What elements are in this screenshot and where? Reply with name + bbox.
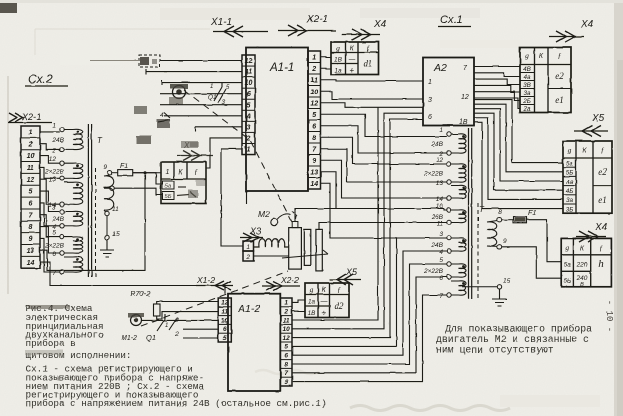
svg-text:6: 6	[223, 326, 227, 333]
connector label X5 right	[574, 113, 608, 137]
svg-text:2: 2	[283, 309, 288, 316]
connector X2-1 pin strip pins 1..14	[21, 126, 40, 268]
svg-text:g: g	[336, 44, 340, 53]
wire A1-1 left pin11	[146, 71, 242, 73]
wire A2 to X5 table row 3	[474, 109, 563, 181]
svg-text:X2-2: X2-2	[280, 275, 299, 285]
svg-text:10: 10	[245, 80, 253, 87]
svg-text:X1-1: X1-1	[210, 17, 232, 28]
transformer Cx.2 primary winding pins 9,10,11	[103, 164, 119, 216]
wire A2 to X5 table row 4	[474, 113, 563, 190]
wire A2 to X4 table row 5	[474, 92, 520, 101]
svg-text:5: 5	[312, 112, 316, 119]
connector label X1-1	[210, 17, 268, 37]
svg-text:А1-1: А1-1	[269, 62, 294, 74]
connector label X6 middle smudged	[177, 141, 213, 161]
svg-text:1: 1	[210, 84, 213, 90]
svg-text:6: 6	[428, 114, 432, 121]
svg-text:24В: 24В	[51, 137, 64, 144]
svg-text:8: 8	[29, 224, 33, 231]
wire A2 to X4 table row 4	[474, 85, 520, 92]
svg-text:X2-1: X2-1	[21, 112, 41, 122]
svg-text:2×22В: 2×22В	[44, 242, 65, 249]
connector label X1-2	[196, 275, 233, 290]
wire motor M2 to Cx.1 winding pin10	[295, 209, 447, 222]
figure caption text block	[25, 303, 327, 409]
mechanical link M1-1 to M2 dashed	[184, 90, 293, 224]
motor M2 phase bar 1	[304, 229, 311, 265]
svg-text:12: 12	[461, 94, 469, 101]
wire A1-1 left pin1 down to X3 pin1	[221, 149, 243, 246]
wire A1-1 pin2 to d1 terminal 1а	[321, 67, 332, 70]
connector table X4 bottom voltage selector 220/240 with winding h	[561, 238, 611, 288]
svg-text:двигатель М2 и связанные с: двигатель М2 и связанные с	[436, 334, 589, 345]
wire X2-1 pin 1 to Cx.2 winding	[40, 131, 60, 133]
svg-text:X4: X4	[373, 19, 387, 30]
svg-text:12: 12	[49, 156, 57, 163]
svg-text:13: 13	[49, 176, 57, 183]
transformer Cx.2 winding 14	[49, 182, 83, 209]
wire A1-2 pin9 riser to Cx.1 winding pin7	[292, 295, 447, 382]
svg-text:5: 5	[29, 189, 33, 196]
svg-text:d1: d1	[364, 59, 373, 69]
svg-text:1: 1	[312, 54, 316, 61]
svg-text:3В: 3В	[523, 82, 531, 89]
svg-text:9: 9	[503, 238, 507, 245]
svg-text:3а: 3а	[566, 197, 574, 204]
wire A1-2 pin12 riser to A2 pin6	[292, 119, 423, 338]
transformer Cx.1 winding 12-13 2×22В	[423, 157, 466, 187]
svg-text:прибора с напряжением питания: прибора с напряжением питания 24В (остал…	[26, 398, 327, 409]
wire A1-1 pin12 to A2 unlabeled pin	[321, 103, 424, 108]
svg-text:1В: 1В	[334, 57, 343, 64]
svg-text:3а: 3а	[523, 90, 531, 97]
wire A2 to X5 table row 1	[474, 100, 563, 163]
smudge component left	[134, 106, 151, 144]
wire X2-1 pin14 bus to A1-2	[40, 262, 225, 294]
svg-text:2: 2	[311, 66, 316, 73]
svg-text:4а: 4а	[566, 179, 574, 186]
wire A1-1 left pin10	[162, 82, 242, 84]
connector label X5 middle	[330, 267, 361, 285]
svg-text:5Б: 5Б	[165, 194, 172, 200]
motor M2 phase bar 2	[316, 229, 322, 271]
transformer T (Cx.1) core	[469, 128, 472, 299]
svg-text:7: 7	[284, 370, 288, 377]
wire A2 to X4 table row 3	[474, 79, 520, 84]
svg-text:1: 1	[439, 127, 443, 134]
svg-text:4: 4	[246, 113, 251, 120]
svg-text:10: 10	[27, 153, 35, 160]
svg-text:2: 2	[51, 147, 56, 154]
svg-text:2: 2	[28, 141, 33, 148]
svg-text:Для показывающего прибора: Для показывающего прибора	[445, 324, 592, 335]
svg-text:9: 9	[284, 379, 288, 386]
wire X2-1 pin 6 to Cx.2 winding	[40, 203, 60, 226]
svg-text:6: 6	[52, 251, 56, 258]
svg-text:X1-2: X1-2	[196, 275, 215, 285]
svg-text:g: g	[525, 51, 529, 60]
wire X2-1 pin13 bus to F1 junction loop	[40, 175, 145, 271]
svg-text:7: 7	[439, 293, 443, 300]
wire A1-2 pin5 riser to winding pin3 line	[292, 238, 397, 346]
wire A1-2 pin6 riser to Cx.1 winding pin4	[292, 251, 447, 355]
svg-text:Q1: Q1	[146, 333, 156, 342]
transformer Cx.2 winding 5-6 2×22В	[44, 230, 83, 258]
motor M2 wiper line	[282, 250, 328, 258]
svg-text:d2: d2	[335, 301, 345, 311]
svg-text:5а: 5а	[165, 184, 172, 190]
svg-text:5: 5	[439, 257, 443, 264]
svg-text:12: 12	[283, 335, 291, 342]
svg-text:2: 2	[245, 254, 250, 261]
connector label X2-1 top	[278, 14, 336, 36]
svg-text:R70-2: R70-2	[130, 289, 151, 298]
svg-text:15: 15	[503, 278, 511, 285]
wire A1-1 pin10 to A2 pin3	[321, 91, 424, 99]
svg-text:6: 6	[247, 91, 251, 98]
svg-text:4Б: 4Б	[566, 188, 574, 195]
svg-text:5Б: 5Б	[563, 278, 571, 285]
svg-text:14: 14	[27, 260, 35, 267]
wire A2 to X5 table row 2	[474, 104, 563, 172]
svg-text:26В: 26В	[430, 214, 443, 221]
svg-text:14: 14	[436, 196, 444, 203]
transformer Cx.2 winding 7	[52, 257, 82, 277]
svg-text:24В: 24В	[430, 242, 443, 249]
svg-text:ƒ: ƒ	[366, 44, 370, 53]
svg-text:А1-2: А1-2	[237, 303, 260, 315]
switch Q1 (channel 2)	[146, 314, 179, 342]
svg-text:12: 12	[310, 100, 318, 107]
svg-text:e1: e1	[555, 95, 564, 105]
motor M1-2	[121, 313, 144, 342]
transformer T (Cx.2) core	[88, 124, 103, 277]
svg-text:6: 6	[312, 123, 316, 130]
wire A2 to X4 table row 2	[474, 73, 520, 77]
svg-text:8: 8	[284, 361, 288, 368]
svg-text:4: 4	[439, 249, 443, 256]
svg-text:F1: F1	[528, 210, 536, 217]
svg-text:ƒ: ƒ	[558, 51, 562, 60]
wire A1-1 pin11 to A2 pin1	[321, 80, 424, 81]
svg-text:24В: 24В	[430, 141, 443, 148]
svg-text:6: 6	[284, 353, 288, 360]
svg-text:2: 2	[246, 135, 251, 142]
svg-text:прибора в: прибора в	[26, 338, 76, 349]
svg-text:4: 4	[160, 112, 164, 119]
svg-text:9: 9	[29, 236, 33, 243]
svg-text:3: 3	[247, 124, 251, 131]
A1-2 left pin column pins 12,11,10,6,5	[218, 298, 231, 342]
svg-text:1: 1	[428, 79, 432, 86]
connector table X4 top with contacts 4В,4а,3В,3а,2Б,2а and windings e2,e1	[520, 48, 571, 114]
wire A2 to X4 table row 1	[474, 66, 520, 68]
mechanical link M1-2 to M2 dashed	[141, 271, 288, 326]
svg-text:9: 9	[103, 164, 107, 171]
svg-text:В: В	[580, 282, 584, 288]
svg-text:X2-1: X2-1	[306, 14, 328, 25]
op-amp unit A1-1 main box	[246, 48, 308, 192]
svg-text:1: 1	[165, 323, 168, 329]
svg-text:1: 1	[52, 123, 56, 130]
svg-text:Q1: Q1	[208, 94, 217, 101]
connector label X4 top right	[549, 19, 594, 42]
svg-text:2Б: 2Б	[522, 98, 531, 105]
svg-text:+: +	[349, 66, 354, 75]
svg-text:4а: 4а	[523, 74, 531, 81]
svg-text:6: 6	[29, 201, 33, 208]
transformer Cx.1 primary winding pins 8,9	[487, 209, 507, 249]
connector X3 pin boxes 1,2	[243, 241, 254, 261]
svg-text:2×22В: 2×22В	[44, 168, 65, 175]
connector label X4 bottom right	[576, 222, 608, 242]
svg-text:3: 3	[439, 231, 443, 238]
wire Q1 contact to A1-2 pin5	[183, 337, 218, 339]
svg-text:2: 2	[174, 318, 179, 324]
wire A1-1 left pin5	[160, 104, 242, 106]
wire A1-1 pin13 junction to M2 supply line	[321, 172, 337, 209]
wire X2-1 pin 11 to Cx.2 winding	[40, 167, 60, 178]
wire M1-2 to A1-2 pin10	[142, 319, 218, 321]
connector label X2-1 left	[8, 112, 52, 123]
svg-text:1В: 1В	[308, 310, 316, 317]
svg-text:1: 1	[247, 147, 251, 154]
wire motor M2 phase bar to Cx.1 winding pin11	[319, 223, 447, 230]
svg-text:3Б: 3Б	[566, 206, 574, 213]
svg-text:11: 11	[221, 309, 228, 316]
svg-text:11: 11	[245, 69, 252, 76]
schematic label Cx.2	[25, 72, 68, 86]
svg-text:М1-2: М1-2	[121, 335, 137, 342]
wire A1-1 left pin12 to input component	[160, 60, 242, 62]
wire A1-1 left pin6	[160, 93, 242, 95]
wire X3 pin2 to motor	[254, 255, 289, 257]
transformer Cx.1 winding 5-6 2×22В	[423, 257, 466, 282]
svg-text:Сх.2: Сх.2	[28, 72, 53, 86]
svg-text:3: 3	[52, 205, 56, 212]
transformer T (Cx.2) screen dashed	[95, 168, 97, 277]
svg-text:5: 5	[52, 230, 56, 237]
svg-text:11: 11	[436, 221, 443, 228]
transformer T (Cx.1) screen dashed and label T	[478, 203, 485, 299]
junction node on F1 wire	[144, 171, 147, 174]
svg-text:—: —	[319, 297, 328, 306]
relay/meter table d2 with terminals 1а,1В	[305, 283, 349, 318]
wire A1-1 pin8 to Cx.1 winding pin12	[321, 137, 447, 164]
wire Cx.1 pin9 to X4 bottom row 5Б	[502, 247, 562, 278]
svg-text:2×22В: 2×22В	[423, 171, 444, 178]
svg-text:ƒ: ƒ	[337, 285, 341, 294]
svg-text:X4: X4	[594, 222, 608, 233]
wire X2-1 pin 2 to Cx.2 winding	[40, 144, 60, 150]
svg-text:А2: А2	[433, 62, 447, 74]
svg-text:12: 12	[221, 300, 229, 307]
transformer Cx.1 winding 3-4 24В	[430, 231, 466, 256]
wire A2 to X5 table row 5	[474, 118, 563, 200]
wire X2-1 pin 8 to Cx.2 winding	[40, 227, 60, 253]
wire A1-2 pin2 to d2 terminal 1В	[292, 310, 305, 312]
svg-text:g: g	[568, 146, 572, 155]
wire stub below A1-1	[246, 191, 248, 204]
svg-text:11: 11	[112, 206, 119, 213]
connector label X4 top middle	[342, 19, 387, 40]
svg-text:g: g	[310, 285, 314, 294]
wire A1-1 pin7 to Cx.1 winding pin13	[321, 149, 447, 182]
svg-text:ƒ: ƒ	[599, 244, 603, 253]
svg-text:2а: 2а	[522, 106, 531, 113]
svg-text:1В: 1В	[459, 119, 468, 126]
connector label X3	[240, 226, 263, 242]
wire A1-1 pin14 to Cx.1 winding pin3	[321, 183, 447, 238]
wire A1-1 left pin2 down to middle table	[206, 138, 242, 168]
svg-text:5а: 5а	[566, 160, 574, 167]
svg-text:220: 220	[576, 262, 588, 269]
svg-text:g: g	[565, 244, 569, 253]
svg-text:12: 12	[27, 177, 35, 184]
svg-text:24В: 24В	[51, 216, 64, 223]
svg-text:5: 5	[247, 102, 251, 109]
wire A1-2 pin7 riser to Cx.1 winding pin6	[292, 277, 447, 373]
dashed component box (channel 1 input)	[139, 55, 160, 67]
svg-text:12: 12	[245, 58, 253, 65]
switch Q1 (channel 1)	[208, 82, 230, 106]
svg-text:11: 11	[27, 165, 34, 172]
svg-text:e2: e2	[555, 71, 564, 81]
motor M2 winding block	[289, 222, 302, 270]
terminal 15 and ground (Cx.1)	[462, 278, 511, 306]
transformer Cx.1 winding 14	[436, 185, 466, 203]
A1-1 left pin column pins 12,11,10,6,5,4,3,2,1	[242, 55, 255, 155]
transformer Cx.2 winding 3-4 24В	[51, 205, 82, 231]
relay/meter table d1 with terminals 1В,1а	[331, 42, 379, 75]
svg-text:2: 2	[174, 332, 179, 338]
wire A2 to X4 table row 6	[474, 98, 520, 109]
wire A1-2 pin10 riser to A2 unlabeled pin	[292, 113, 423, 329]
svg-text:8: 8	[498, 209, 502, 216]
wire Q1 contact to A1-2 pin6	[183, 328, 218, 330]
transformer Cx.2 winding 1-2 24В	[51, 123, 82, 155]
svg-text:—: —	[347, 57, 356, 64]
fuse F1 (Cx.1)	[502, 210, 537, 223]
wire X2-1 pin 5 to Cx.2 winding	[40, 191, 60, 211]
motor M1-1	[169, 84, 188, 105]
transformer Cx.2 winding 12-13 2×22В	[44, 156, 83, 183]
schematic label Cx.1	[438, 14, 471, 27]
wire fuse F1 Cx.2 output to middle table	[133, 173, 163, 184]
svg-text:e2: e2	[598, 167, 607, 177]
wire R70-2 to A1-2 pin12	[157, 302, 219, 320]
svg-text:12: 12	[436, 157, 444, 164]
svg-text:10: 10	[283, 326, 291, 333]
svg-text:М2: М2	[258, 209, 270, 219]
svg-text:5: 5	[223, 335, 227, 342]
svg-text:e1: e1	[598, 195, 607, 205]
amplifier unit A2	[423, 58, 474, 127]
middle connector table (smudged) with pins 5а,5Б	[161, 162, 206, 204]
A1-1 right pin column pins 1,2,11,10,12,5,6,8,7,9,13,14	[308, 51, 321, 189]
wire A1-2 pin11 riser to A2 line	[292, 107, 378, 320]
register unit A1-2 main box	[228, 294, 280, 391]
wire A1-1 left pin3	[195, 126, 242, 128]
svg-text:11: 11	[283, 317, 290, 324]
svg-text:13: 13	[27, 248, 35, 255]
motor M2 circle and label	[258, 209, 297, 226]
wire Cx.2 pin10 to middle table	[114, 188, 162, 195]
transformer Cx.1 winding 1-2 24В	[430, 127, 466, 158]
svg-text:h: h	[598, 258, 604, 270]
transformer Cx.1 winding 7	[439, 281, 466, 300]
svg-text:9: 9	[312, 158, 316, 165]
svg-text:4В: 4В	[523, 66, 531, 73]
wire A1-1 pin5 to Cx.1 winding pin1	[321, 114, 447, 136]
resistor R70-2	[130, 289, 160, 316]
svg-text:8: 8	[312, 135, 316, 142]
svg-text:1а: 1а	[334, 68, 342, 75]
smudge component near arrow	[181, 141, 198, 148]
svg-text:7: 7	[52, 270, 56, 277]
svg-text:3: 3	[428, 97, 432, 104]
svg-text:5а: 5а	[564, 262, 572, 269]
wire X2-1 pin 12 to Cx.2 winding	[40, 179, 60, 204]
svg-text:X5: X5	[591, 113, 605, 124]
connector label X2-2	[262, 275, 300, 291]
fuse F1 (Cx.2)	[112, 163, 161, 176]
wire X2-1 pin 9 to Cx.2 winding	[40, 238, 60, 272]
svg-text:+: +	[321, 308, 326, 318]
wire fuse F1 Cx.1 to X4 bottom row 5а	[527, 220, 562, 262]
wire A2 to X5 table row 6	[474, 122, 563, 208]
svg-text:10: 10	[310, 89, 318, 96]
svg-text:1а: 1а	[308, 299, 316, 306]
svg-text:10: 10	[221, 317, 229, 324]
svg-text:Сх.1: Сх.1	[440, 14, 463, 26]
svg-text:ƒ: ƒ	[194, 167, 198, 176]
svg-text:5Б: 5Б	[566, 170, 574, 177]
inductor choke between X3 and motor M2	[254, 239, 289, 247]
relay contact component with label 4	[157, 112, 170, 128]
svg-text:- 10 -: - 10 -	[604, 300, 614, 332]
svg-text:F1: F1	[120, 163, 128, 170]
wire A1-1 pin6 to Cx.1 winding pin2	[321, 126, 447, 153]
svg-text:2×22В: 2×22В	[423, 268, 444, 275]
svg-text:ƒ: ƒ	[601, 146, 605, 155]
svg-text:6: 6	[439, 275, 443, 282]
terminal 15 and ground (Cx.2)	[100, 216, 120, 257]
svg-text:1: 1	[29, 129, 33, 136]
wire A1-2 pin1 to d2 terminal 1а	[292, 300, 305, 302]
svg-text:15: 15	[112, 231, 120, 238]
svg-text:14: 14	[310, 181, 318, 188]
svg-text:X4: X4	[580, 19, 594, 30]
wire A1-2 pin8 riser to Cx.1 winding pin5	[292, 264, 447, 364]
svg-text:1: 1	[246, 244, 250, 251]
svg-text:13: 13	[436, 180, 444, 187]
transformer Cx.1 winding 10-11 26В	[430, 203, 466, 228]
svg-text:1: 1	[166, 169, 170, 176]
connector table X5 right with contacts 5а,5Б,4а,4Б,3а,3Б and windings e2,e1	[563, 141, 612, 213]
wire X2-1 pin 10 to Cx.2 winding	[40, 156, 60, 164]
svg-text:5: 5	[284, 344, 288, 351]
wire X2-1 pin 7 to Cx.2 winding	[40, 215, 60, 237]
wire A1-1 pin9 to Cx.1 winding pin14	[321, 160, 447, 198]
svg-text:11: 11	[311, 77, 318, 84]
svg-text:240: 240	[576, 275, 588, 282]
svg-text:13: 13	[310, 169, 318, 176]
note text about motor M2	[436, 324, 592, 356]
svg-text:X3: X3	[249, 226, 261, 236]
wire A1-1 pin1 to d1 terminal 1В	[321, 56, 332, 59]
